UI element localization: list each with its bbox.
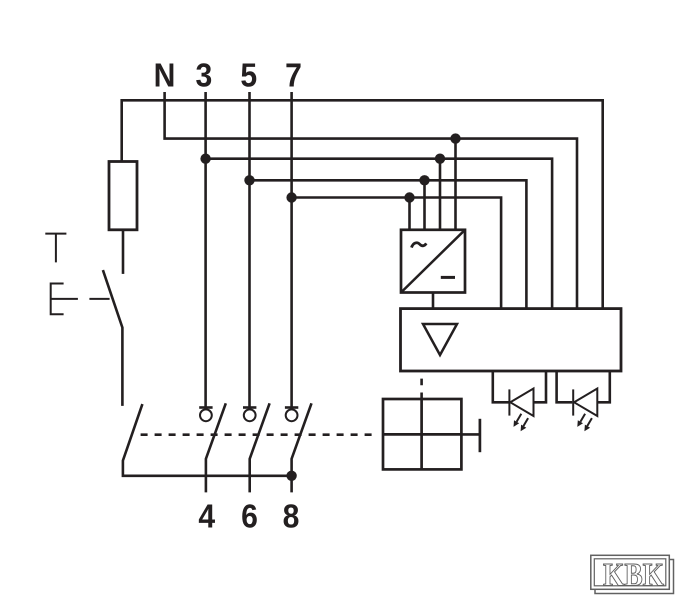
electronics amplifier box (401, 309, 622, 371)
wire 5 run (250, 180, 527, 308)
test switch blade (103, 270, 123, 406)
junction node on wire 5 (244, 175, 254, 185)
LED 2 cathode bar (572, 389, 574, 415)
rectifier input wire 2 (423, 180, 426, 230)
junction node input 2 (419, 175, 429, 185)
junction node on wire 3 (200, 154, 210, 164)
rectifier AC tilde (412, 243, 427, 248)
contact circle 4 (200, 409, 212, 421)
svg-text:KBK: KBK (603, 558, 664, 594)
relay armature link (461, 433, 480, 436)
LED 1 arrow a (517, 414, 522, 422)
wire 3 run (206, 159, 552, 309)
LED 1 cathode bar (508, 389, 510, 415)
svg-text:3: 3 (196, 56, 213, 94)
contact circle 6 (244, 409, 256, 421)
svg-text:N: N (154, 56, 176, 94)
rectifier input wire 3 (439, 159, 442, 230)
LED 2 loop (557, 371, 610, 402)
wire N run (165, 92, 577, 309)
junction node on wire 7 (286, 192, 296, 202)
KBK logo stamp (591, 555, 674, 593)
svg-text:6: 6 (241, 497, 258, 535)
junction node input 1 (404, 192, 414, 202)
LED 2 triangle (574, 389, 597, 417)
amplifier triangle (423, 324, 457, 355)
test push button (51, 284, 110, 315)
pole 6 blade (250, 403, 270, 492)
LED 1 loop (493, 371, 546, 402)
contact circle 8 (286, 409, 298, 421)
rectifier input wire 1 (408, 198, 411, 230)
mechanical link dashed (141, 433, 377, 436)
svg-text:8: 8 (283, 497, 300, 535)
junction node input 4 (450, 133, 460, 143)
wire resistor to test contact (122, 230, 125, 274)
svg-text:5: 5 (240, 56, 257, 94)
relay armature bar (479, 419, 482, 452)
rectifier DC bar (441, 276, 455, 279)
rectifier diagonal (401, 230, 465, 293)
wire top line from resistor branch to electronics (122, 100, 603, 308)
resistor R test (109, 162, 137, 230)
junction node input 3 (435, 154, 445, 164)
LED 1 arrow b (523, 418, 528, 426)
wire 3 vertical (204, 92, 207, 407)
contact seat 4 (199, 406, 212, 409)
pole N blade and bottom bus (123, 404, 292, 476)
pole 4 blade (206, 403, 226, 492)
svg-text:7: 7 (285, 56, 302, 94)
rectifier box U1 (401, 230, 465, 293)
svg-text:4: 4 (198, 497, 215, 535)
rectifier input wire 4 (454, 139, 457, 230)
rectifier output wire (432, 293, 435, 309)
LED 2 arrow b (587, 418, 592, 426)
test label T (45, 234, 66, 263)
contact seat 6 (243, 406, 256, 409)
LED 1 triangle (510, 389, 533, 417)
relay coil cross (383, 399, 461, 469)
junction node bus to pole 8 (286, 471, 296, 481)
pole 8 blade (292, 403, 312, 492)
wire 7 vertical (290, 92, 293, 407)
relay coil square (383, 399, 461, 469)
LED 2 arrow a (580, 414, 585, 422)
dashed actuator electronics to relay (420, 379, 423, 400)
contact seat 8 (285, 406, 298, 409)
wire 7 run (292, 198, 502, 309)
wire 5 vertical (248, 92, 251, 407)
